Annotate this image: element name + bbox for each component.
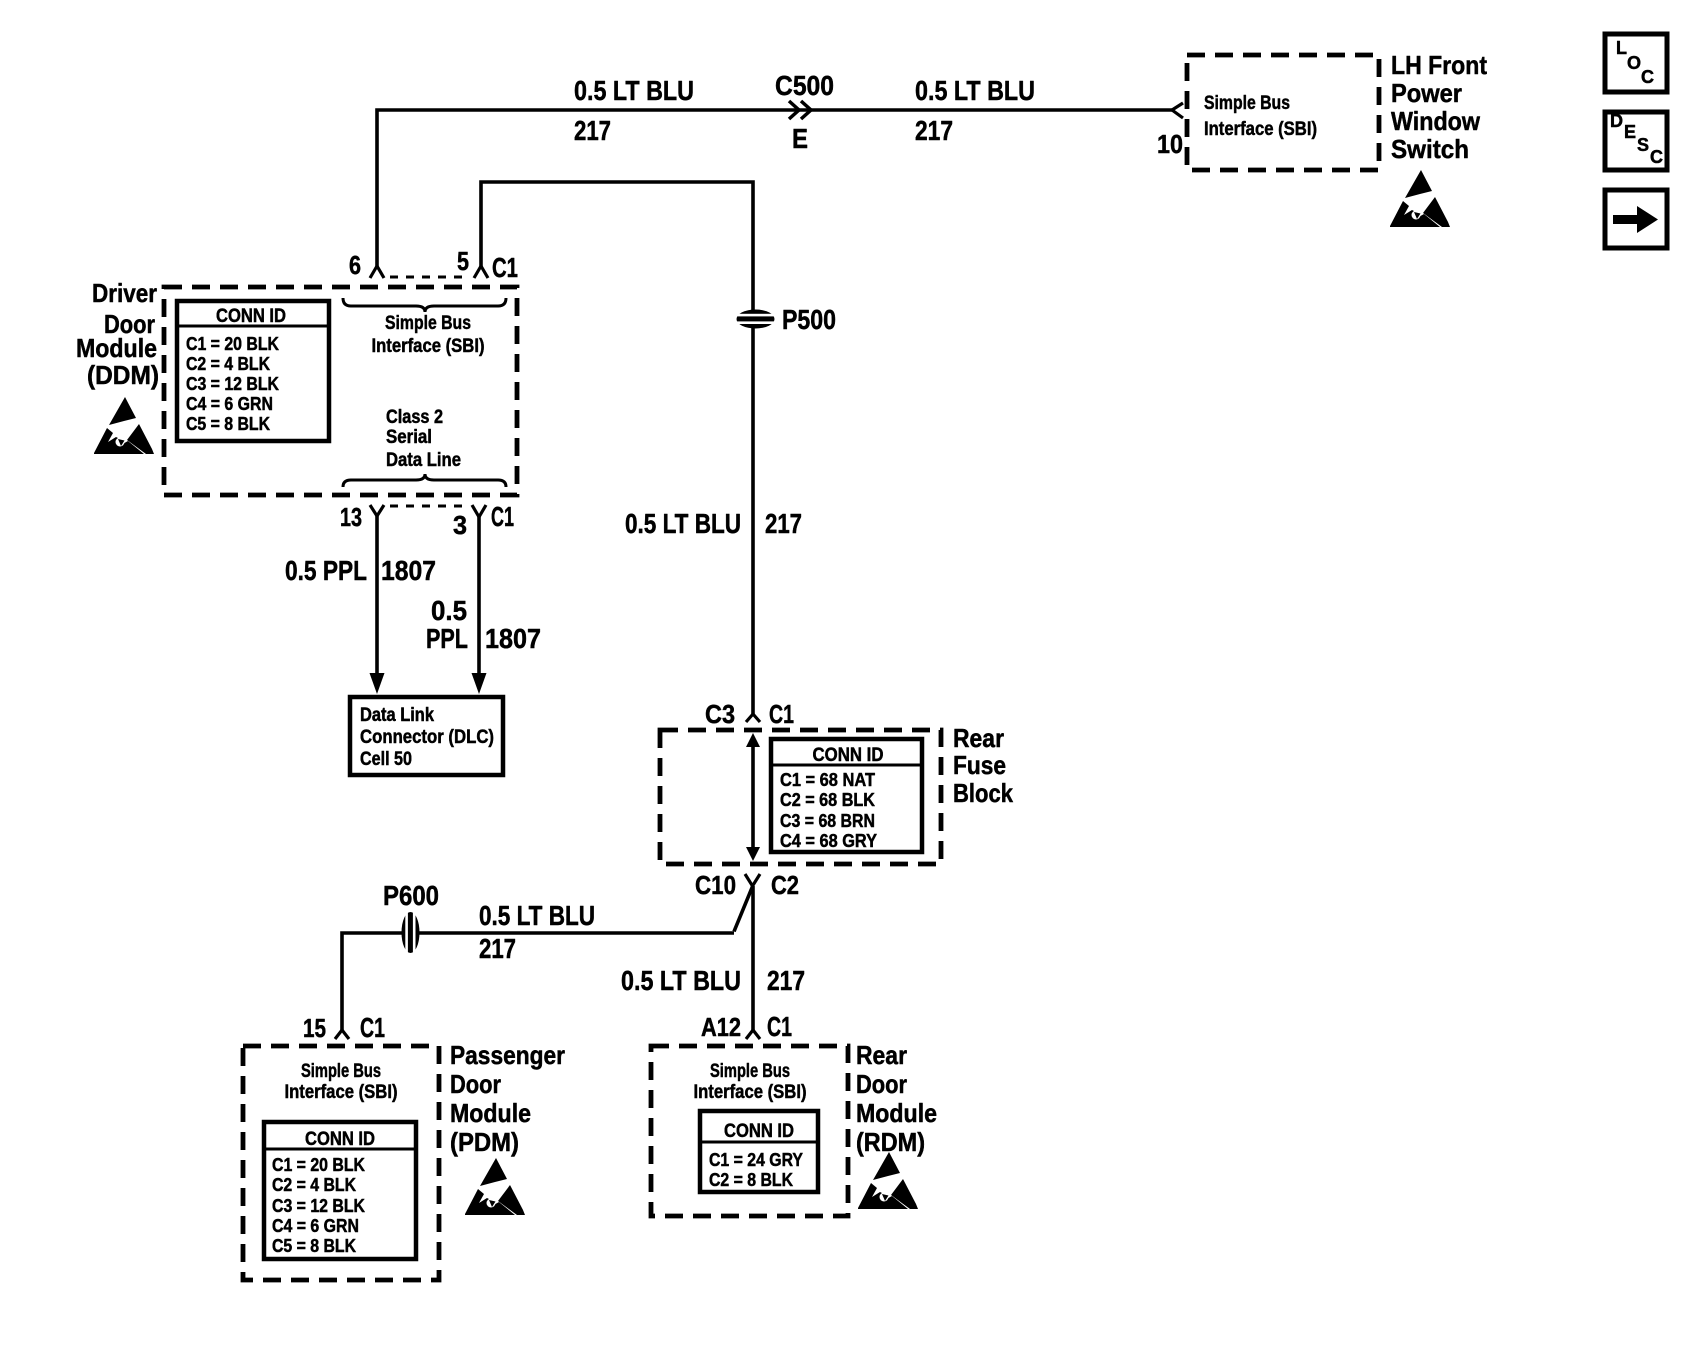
svg-text:CONN ID: CONN ID <box>305 1129 375 1150</box>
svg-text:Simple Bus: Simple Bus <box>301 1061 381 1082</box>
svg-text:1807: 1807 <box>381 555 436 586</box>
svg-text:E: E <box>1624 122 1636 142</box>
svg-text:C4 = 6 GRN: C4 = 6 GRN <box>272 1216 359 1236</box>
svg-text:C3 = 12 BLK: C3 = 12 BLK <box>272 1196 365 1216</box>
svg-text:13: 13 <box>340 502 362 532</box>
svg-text:6: 6 <box>349 250 361 280</box>
svg-text:Interface (SBI): Interface (SBI) <box>694 1082 807 1103</box>
svg-text:217: 217 <box>915 115 953 146</box>
svg-text:O: O <box>1627 53 1641 73</box>
svg-text:C2 = 4 BLK: C2 = 4 BLK <box>272 1175 356 1195</box>
svg-text:Power: Power <box>1391 78 1462 108</box>
svg-text:0.5: 0.5 <box>431 595 467 626</box>
svg-text:C5 = 8 BLK: C5 = 8 BLK <box>272 1236 356 1256</box>
svg-text:C1 = 24 GRY: C1 = 24 GRY <box>709 1150 803 1170</box>
svg-text:L: L <box>1616 38 1627 58</box>
svg-text:Cell 50: Cell 50 <box>360 749 412 770</box>
svg-text:E: E <box>792 123 808 154</box>
svg-text:Module: Module <box>450 1098 531 1128</box>
svg-text:C2: C2 <box>771 870 799 900</box>
svg-text:Switch: Switch <box>1391 134 1469 164</box>
svg-text:1807: 1807 <box>485 623 541 654</box>
svg-text:Connector (DLC): Connector (DLC) <box>360 727 494 748</box>
svg-text:Interface (SBI): Interface (SBI) <box>372 336 485 357</box>
svg-text:0.5 LT BLU: 0.5 LT BLU <box>574 75 694 106</box>
svg-text:C1: C1 <box>767 1011 792 1042</box>
svg-text:S: S <box>1637 135 1649 155</box>
svg-text:Simple Bus: Simple Bus <box>710 1061 790 1082</box>
svg-text:Rear: Rear <box>856 1040 907 1070</box>
svg-text:C3 = 12 BLK: C3 = 12 BLK <box>186 374 279 394</box>
svg-text:C1: C1 <box>360 1012 385 1043</box>
svg-text:C2 = 68 BLK: C2 = 68 BLK <box>780 790 875 810</box>
svg-text:Rear: Rear <box>953 723 1004 753</box>
svg-text:0.5 PPL: 0.5 PPL <box>285 555 367 586</box>
svg-text:C3: C3 <box>705 699 735 729</box>
svg-text:C4 = 68 GRY: C4 = 68 GRY <box>780 831 877 851</box>
svg-text:C1: C1 <box>769 699 794 729</box>
svg-text:C2 = 8 BLK: C2 = 8 BLK <box>709 1170 793 1190</box>
svg-text:P600: P600 <box>383 880 439 911</box>
svg-text:(PDM): (PDM) <box>450 1127 519 1157</box>
svg-text:217: 217 <box>479 933 516 964</box>
svg-text:10: 10 <box>1157 129 1183 159</box>
svg-text:Window: Window <box>1391 106 1481 136</box>
svg-text:P500: P500 <box>782 304 836 335</box>
svg-text:Module: Module <box>76 333 157 363</box>
svg-text:C1: C1 <box>491 501 514 532</box>
svg-text:C4 = 6 GRN: C4 = 6 GRN <box>186 394 273 414</box>
svg-text:A12: A12 <box>701 1012 741 1042</box>
svg-text:Door: Door <box>450 1069 501 1099</box>
svg-text:C1: C1 <box>492 252 518 283</box>
svg-text:C1 = 20 BLK: C1 = 20 BLK <box>186 334 279 354</box>
svg-text:PPL: PPL <box>426 623 468 654</box>
svg-text:C2 = 4 BLK: C2 = 4 BLK <box>186 354 270 374</box>
svg-text:Data Line: Data Line <box>386 450 461 471</box>
svg-text:C5 = 8 BLK: C5 = 8 BLK <box>186 414 270 434</box>
svg-text:Interface (SBI): Interface (SBI) <box>285 1082 398 1103</box>
svg-text:Driver: Driver <box>92 278 157 308</box>
svg-text:15: 15 <box>303 1013 326 1043</box>
svg-text:C1 = 68 NAT: C1 = 68 NAT <box>780 770 875 790</box>
svg-text:5: 5 <box>457 246 469 276</box>
svg-text:(DDM): (DDM) <box>87 360 159 390</box>
svg-text:C: C <box>1641 67 1654 87</box>
svg-text:(RDM): (RDM) <box>856 1127 925 1157</box>
svg-text:C3 = 68 BRN: C3 = 68 BRN <box>780 811 875 831</box>
svg-text:C1 = 20 BLK: C1 = 20 BLK <box>272 1155 365 1175</box>
svg-text:Block: Block <box>953 778 1013 808</box>
svg-text:0.5 LT BLU: 0.5 LT BLU <box>915 75 1035 106</box>
svg-text:Module: Module <box>856 1098 937 1128</box>
svg-text:CONN ID: CONN ID <box>216 306 286 327</box>
svg-text:Interface (SBI): Interface (SBI) <box>1204 119 1317 140</box>
svg-text:Door: Door <box>856 1069 907 1099</box>
svg-text:0.5 LT BLU: 0.5 LT BLU <box>479 900 595 931</box>
svg-text:0.5 LT BLU: 0.5 LT BLU <box>621 965 741 996</box>
svg-text:LH Front: LH Front <box>1391 50 1487 80</box>
svg-text:Class 2: Class 2 <box>386 407 443 428</box>
svg-text:Simple Bus: Simple Bus <box>1204 93 1290 114</box>
svg-text:217: 217 <box>767 965 805 996</box>
svg-text:Serial: Serial <box>386 427 432 448</box>
svg-text:217: 217 <box>765 508 802 539</box>
svg-text:CONN ID: CONN ID <box>724 1121 794 1142</box>
svg-text:CONN ID: CONN ID <box>813 745 884 766</box>
svg-text:0.5 LT BLU: 0.5 LT BLU <box>625 508 741 539</box>
svg-text:C: C <box>1650 147 1663 167</box>
svg-text:C10: C10 <box>695 870 736 900</box>
svg-text:Simple Bus: Simple Bus <box>385 313 471 334</box>
svg-text:Fuse: Fuse <box>953 750 1006 780</box>
svg-text:3: 3 <box>453 510 467 540</box>
svg-text:Passenger: Passenger <box>450 1040 565 1070</box>
svg-text:C500: C500 <box>775 70 834 101</box>
svg-text:217: 217 <box>574 115 611 146</box>
svg-text:D: D <box>1610 111 1623 131</box>
svg-text:Data Link: Data Link <box>360 705 434 726</box>
